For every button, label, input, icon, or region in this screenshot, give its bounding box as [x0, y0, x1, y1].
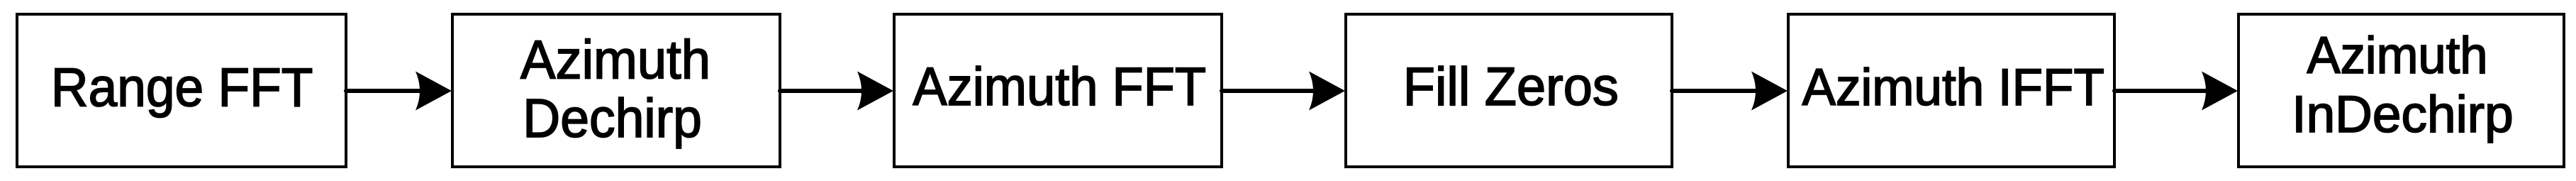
arrow 3: [1222, 72, 1345, 111]
svg-text:Azimuth: Azimuth: [2307, 26, 2487, 84]
box Azimuth FFT: [894, 14, 1222, 167]
svg-text:Azimuth FFT: Azimuth FFT: [913, 56, 1206, 117]
arrow 5: [2114, 72, 2238, 111]
arrow 1: [346, 72, 452, 111]
arrow 4: [1672, 72, 1788, 111]
svg-text:Azimuth IFFT: Azimuth IFFT: [1802, 59, 2104, 117]
box Azimuth InDechirp: [2238, 14, 2564, 167]
svg-text:InDechirp: InDechirp: [2292, 86, 2513, 144]
svg-text:Azimuth: Azimuth: [520, 29, 710, 91]
box Azimuth Dechirp: [452, 14, 780, 167]
svg-text:Range FFT: Range FFT: [51, 57, 313, 119]
svg-text:Dechirp: Dechirp: [523, 87, 702, 149]
svg-text:Fill Zeros: Fill Zeros: [1403, 55, 1619, 116]
box Fill Zeros: [1346, 14, 1672, 167]
box Range FFT: [17, 14, 346, 167]
arrow 2: [780, 72, 893, 111]
box Azimuth IFFT: [1788, 14, 2114, 167]
